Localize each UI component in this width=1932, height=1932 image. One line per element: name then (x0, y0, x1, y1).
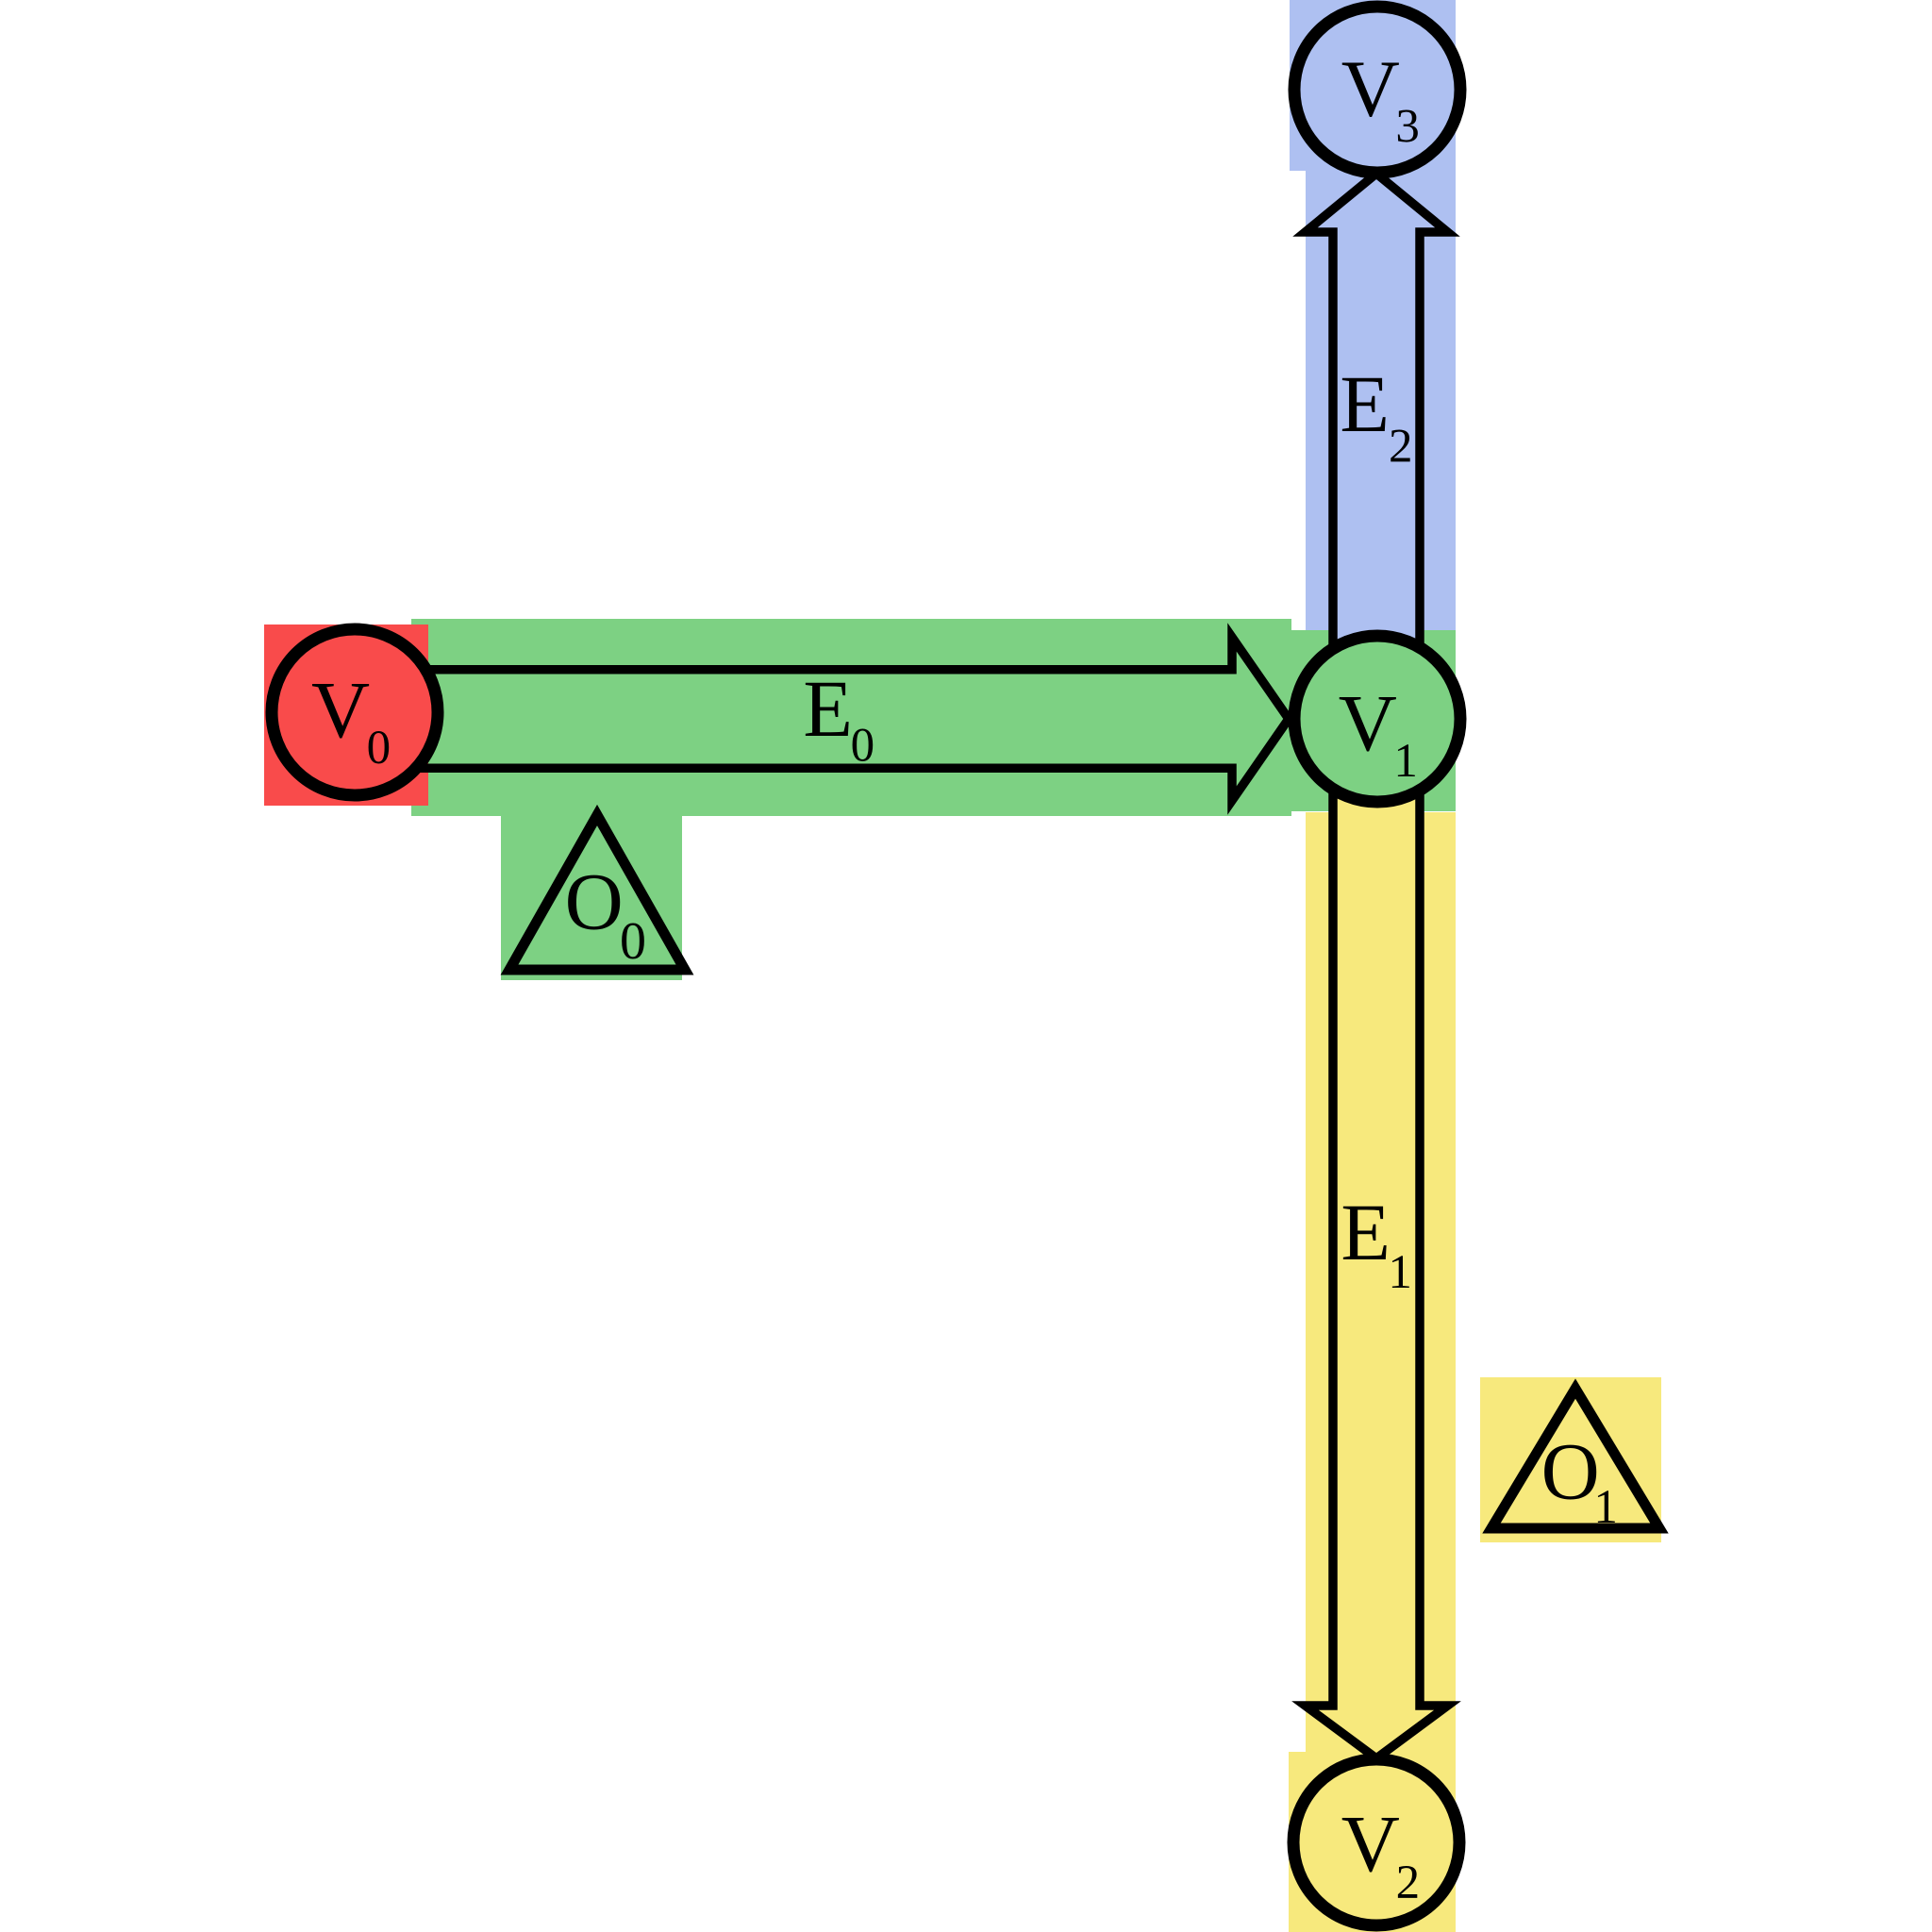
svg-text:O: O (1541, 1426, 1600, 1517)
svg-text:V: V (1341, 1798, 1400, 1889)
highlight patch V2 (yellow) (1289, 1752, 1456, 1932)
svg-text:3: 3 (1395, 101, 1420, 154)
svg-text:0: 0 (620, 912, 646, 971)
svg-text:1: 1 (1593, 1481, 1618, 1534)
highlight wedge E1 at V1 (yellow) (1333, 783, 1420, 812)
svg-text:0: 0 (367, 722, 391, 774)
svg-text:V: V (1339, 677, 1397, 768)
highlight band E0 right part (green) (1291, 630, 1456, 811)
highlight wedge E2 at V1 (blue) (1333, 619, 1420, 665)
highlight patch V0 (red) (264, 625, 428, 806)
svg-text:O: O (565, 857, 624, 947)
svg-text:0: 0 (851, 719, 875, 772)
svg-text:1: 1 (1388, 1246, 1412, 1299)
highlight band E2 (blue) (1306, 0, 1456, 630)
highlight patch O0 (green) (501, 797, 682, 980)
vertex V2 circle (1293, 1759, 1459, 1925)
highlight band E1 (yellow) (1306, 812, 1456, 1932)
svg-text:E: E (1341, 1187, 1391, 1277)
svg-text:E: E (1340, 358, 1390, 449)
svg-text:2: 2 (1396, 1857, 1421, 1909)
svg-text:1: 1 (1393, 735, 1418, 788)
edge E0 arrow (406, 637, 1289, 800)
vertex V1 circle (1294, 636, 1460, 802)
observation O0 triangle (509, 815, 685, 970)
edge E2 arrow (1306, 174, 1448, 660)
svg-text:V: V (311, 664, 370, 755)
observation O1 triangle (1491, 1389, 1659, 1528)
highlight patch O1 (yellow) (1480, 1377, 1661, 1542)
vertex V0 circle (272, 629, 438, 795)
highlight band E0 (green) (411, 619, 1291, 816)
highlight patch V3 (blue) (1290, 0, 1455, 171)
vertex V3 circle (1294, 7, 1460, 173)
svg-text:E: E (803, 663, 853, 754)
edge E1 arrow (1306, 774, 1448, 1758)
svg-text:2: 2 (1389, 421, 1413, 474)
svg-text:V: V (1341, 43, 1400, 134)
